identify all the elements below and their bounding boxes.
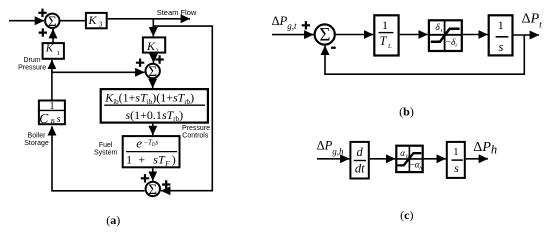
svg-text:Σ: Σ <box>319 25 330 46</box>
block 1/s (c) <box>447 142 465 178</box>
svg-text:): ) <box>172 153 176 167</box>
plus sign left of S2 top input <box>136 59 144 67</box>
wire feedback loop (b) <box>325 35 524 74</box>
wire output delta Ph <box>466 158 488 160</box>
svg-text:δ: δ <box>435 23 440 33</box>
block K2 <box>143 37 165 54</box>
svg-text:K: K <box>45 43 54 55</box>
svg-text:Boiler: Boiler <box>28 132 47 139</box>
svg-text:Drum: Drum <box>24 57 41 64</box>
svg-text:(a): (a) <box>106 213 120 227</box>
plus sign right of S3 at feedback input <box>162 180 170 188</box>
block 1/s (b) <box>489 15 513 55</box>
svg-text:s: s <box>57 114 61 125</box>
svg-text:t.: t. <box>388 42 392 50</box>
svg-text:Σ: Σ <box>148 182 157 198</box>
wire limiter to 1/s (c) <box>424 158 446 160</box>
summer B1 <box>315 24 335 45</box>
svg-text:2: 2 <box>155 47 158 54</box>
svg-text:Σ: Σ <box>48 14 57 30</box>
svg-text:s: s <box>498 40 503 54</box>
plus sign at S1 bottom input <box>39 28 47 36</box>
wire input to d/dt <box>317 158 349 160</box>
svg-text:Pressure: Pressure <box>18 65 46 72</box>
wire d/dt to limiter <box>370 158 396 160</box>
svg-text:Fuel: Fuel <box>99 142 113 149</box>
svg-text:e: e <box>136 136 142 151</box>
svg-text:T: T <box>380 34 388 48</box>
wire K2 to summer S2 <box>153 54 155 63</box>
svg-text:ΔPh: ΔPh <box>473 140 497 157</box>
plus sign left of S3 top input <box>141 174 149 182</box>
svg-text:(c): (c) <box>400 208 413 222</box>
label Boiler Storage <box>24 132 49 147</box>
svg-text:Σ: Σ <box>148 64 157 80</box>
svg-text:Controls: Controls <box>182 133 209 140</box>
svg-text:C: C <box>39 111 49 126</box>
block K1 <box>43 43 64 59</box>
svg-text:Storage: Storage <box>24 140 49 147</box>
svg-text:+: + <box>138 153 145 167</box>
label Pressure Controls <box>182 125 210 140</box>
block K3 <box>86 13 107 29</box>
label Fuel System <box>94 142 118 157</box>
wire limiter to 1/s block <box>463 34 488 36</box>
svg-text:−δ: −δ <box>446 38 456 48</box>
svg-text:3: 3 <box>99 21 103 29</box>
minus sign at B1 feedback input <box>331 47 336 49</box>
svg-text:Steam Flow: Steam Flow <box>157 8 197 17</box>
svg-text:(b): (b) <box>399 105 414 119</box>
limiter block with saturation limits ah <box>396 146 422 172</box>
svg-text:s: s <box>454 163 459 175</box>
plus sign at S1 left input <box>38 9 46 17</box>
svg-text:α: α <box>400 148 405 158</box>
label Drum Pressure <box>18 57 46 72</box>
svg-text:F: F <box>164 160 170 168</box>
svg-text:1: 1 <box>453 146 459 158</box>
wire S3 output left and up into boiler storage <box>52 126 145 191</box>
svg-text:h: h <box>419 165 422 171</box>
svg-text:sT: sT <box>153 153 166 167</box>
wire boiler transfer block to fuel system block <box>152 124 154 135</box>
svg-text:dt: dt <box>355 161 365 175</box>
plus sign right of S2 top input <box>155 55 163 63</box>
block d/dt <box>350 142 368 179</box>
wire input to summer S1 <box>9 20 44 22</box>
svg-text:Pressure: Pressure <box>182 125 210 132</box>
svg-text:1: 1 <box>382 18 388 32</box>
block 1/Tt <box>374 15 398 55</box>
wire K1 up to S1 <box>52 29 54 42</box>
wire drum pressure to S2 <box>52 71 145 73</box>
wire fuel system to summer S3 <box>152 168 154 180</box>
wire input to summer B1 <box>272 34 314 36</box>
wire S1 to K3 <box>61 20 85 22</box>
summer S3 <box>146 182 160 198</box>
plus sign at B1 input <box>302 21 310 29</box>
summer S1 <box>45 14 59 30</box>
wire 1/Tt to limiter <box>400 34 428 36</box>
svg-text:1: 1 <box>57 50 60 57</box>
svg-text:1: 1 <box>126 153 132 167</box>
svg-text:B: B <box>51 118 55 125</box>
wire B1 to 1/Tt block <box>336 34 373 36</box>
svg-text:K: K <box>88 13 98 27</box>
block boiler transfer function Kib(1+sTib)(1+sTrb)/s(1+0.1sTrb) <box>101 89 208 123</box>
wire K3 to steam flow output arrow <box>108 18 190 20</box>
wire branch to right feedback into summer S3 <box>153 26 212 191</box>
wire boiler storage up to K1 <box>51 60 53 100</box>
block fuel system e^-TDs/(1+sTF) <box>123 136 180 168</box>
wire junction down to K2 <box>152 19 154 37</box>
svg-text:h: h <box>406 154 409 160</box>
block boiler storage 1/CBs <box>38 101 66 126</box>
wire S2 down to boiler transfer block <box>152 79 154 88</box>
svg-text:1: 1 <box>498 18 504 32</box>
svg-text:System: System <box>94 150 118 157</box>
svg-text:d: d <box>356 145 363 159</box>
summer S2 <box>146 64 160 80</box>
wire output delta Pt <box>514 34 539 36</box>
limiter block with saturation limits dt <box>429 20 462 51</box>
